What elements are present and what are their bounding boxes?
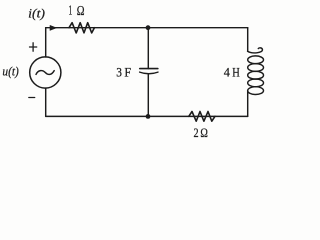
wire left lower (source bottom down to bottom corner) xyxy=(45,88,47,116)
inductor 4H coil hook xyxy=(248,48,263,53)
wire top (left corner to right corner) xyxy=(46,27,248,29)
svg-text:H: H xyxy=(232,65,240,80)
inductor 4H coil loop 1 xyxy=(248,56,264,64)
svg-text:Ω: Ω xyxy=(77,3,85,18)
resistor 1ohm zigzag xyxy=(69,23,94,33)
current arrow i(t) xyxy=(50,25,56,30)
junction dot top xyxy=(146,25,151,30)
plus sign xyxy=(30,43,37,51)
minus sign xyxy=(29,97,35,99)
wire left upper (corner down to source top) xyxy=(45,28,47,57)
wire bottom xyxy=(46,115,248,117)
wire capacitor branch lower xyxy=(147,74,149,116)
junction dot bottom xyxy=(146,114,151,119)
svg-text:3: 3 xyxy=(116,65,122,80)
svg-text:Ω: Ω xyxy=(200,125,208,140)
svg-text:1: 1 xyxy=(68,3,72,18)
inductor 4H coil loop 5 xyxy=(248,87,264,95)
inductor 4H coil loop 4 xyxy=(248,79,264,87)
inductor 4H coil loop 2 xyxy=(248,64,264,72)
inductor 4H coil loop 3 xyxy=(248,71,264,79)
capacitor 3F bottom curved plate xyxy=(140,72,158,74)
svg-text:4: 4 xyxy=(224,65,231,80)
resistor 2ohm zigzag xyxy=(189,112,215,122)
wire capacitor branch upper xyxy=(147,28,149,69)
voltage source u(t) circle xyxy=(30,57,61,88)
svg-text:F: F xyxy=(124,65,131,80)
svg-text:i(t): i(t) xyxy=(28,6,45,21)
capacitor 3F top plate xyxy=(140,68,158,70)
svg-text:2: 2 xyxy=(194,125,199,140)
wire right upper (top corner down to coil) xyxy=(247,28,249,52)
wire right lower (coil to bottom corner) xyxy=(247,91,249,117)
voltage source sine tilde xyxy=(36,71,54,75)
svg-text:u(t): u(t) xyxy=(2,63,18,78)
